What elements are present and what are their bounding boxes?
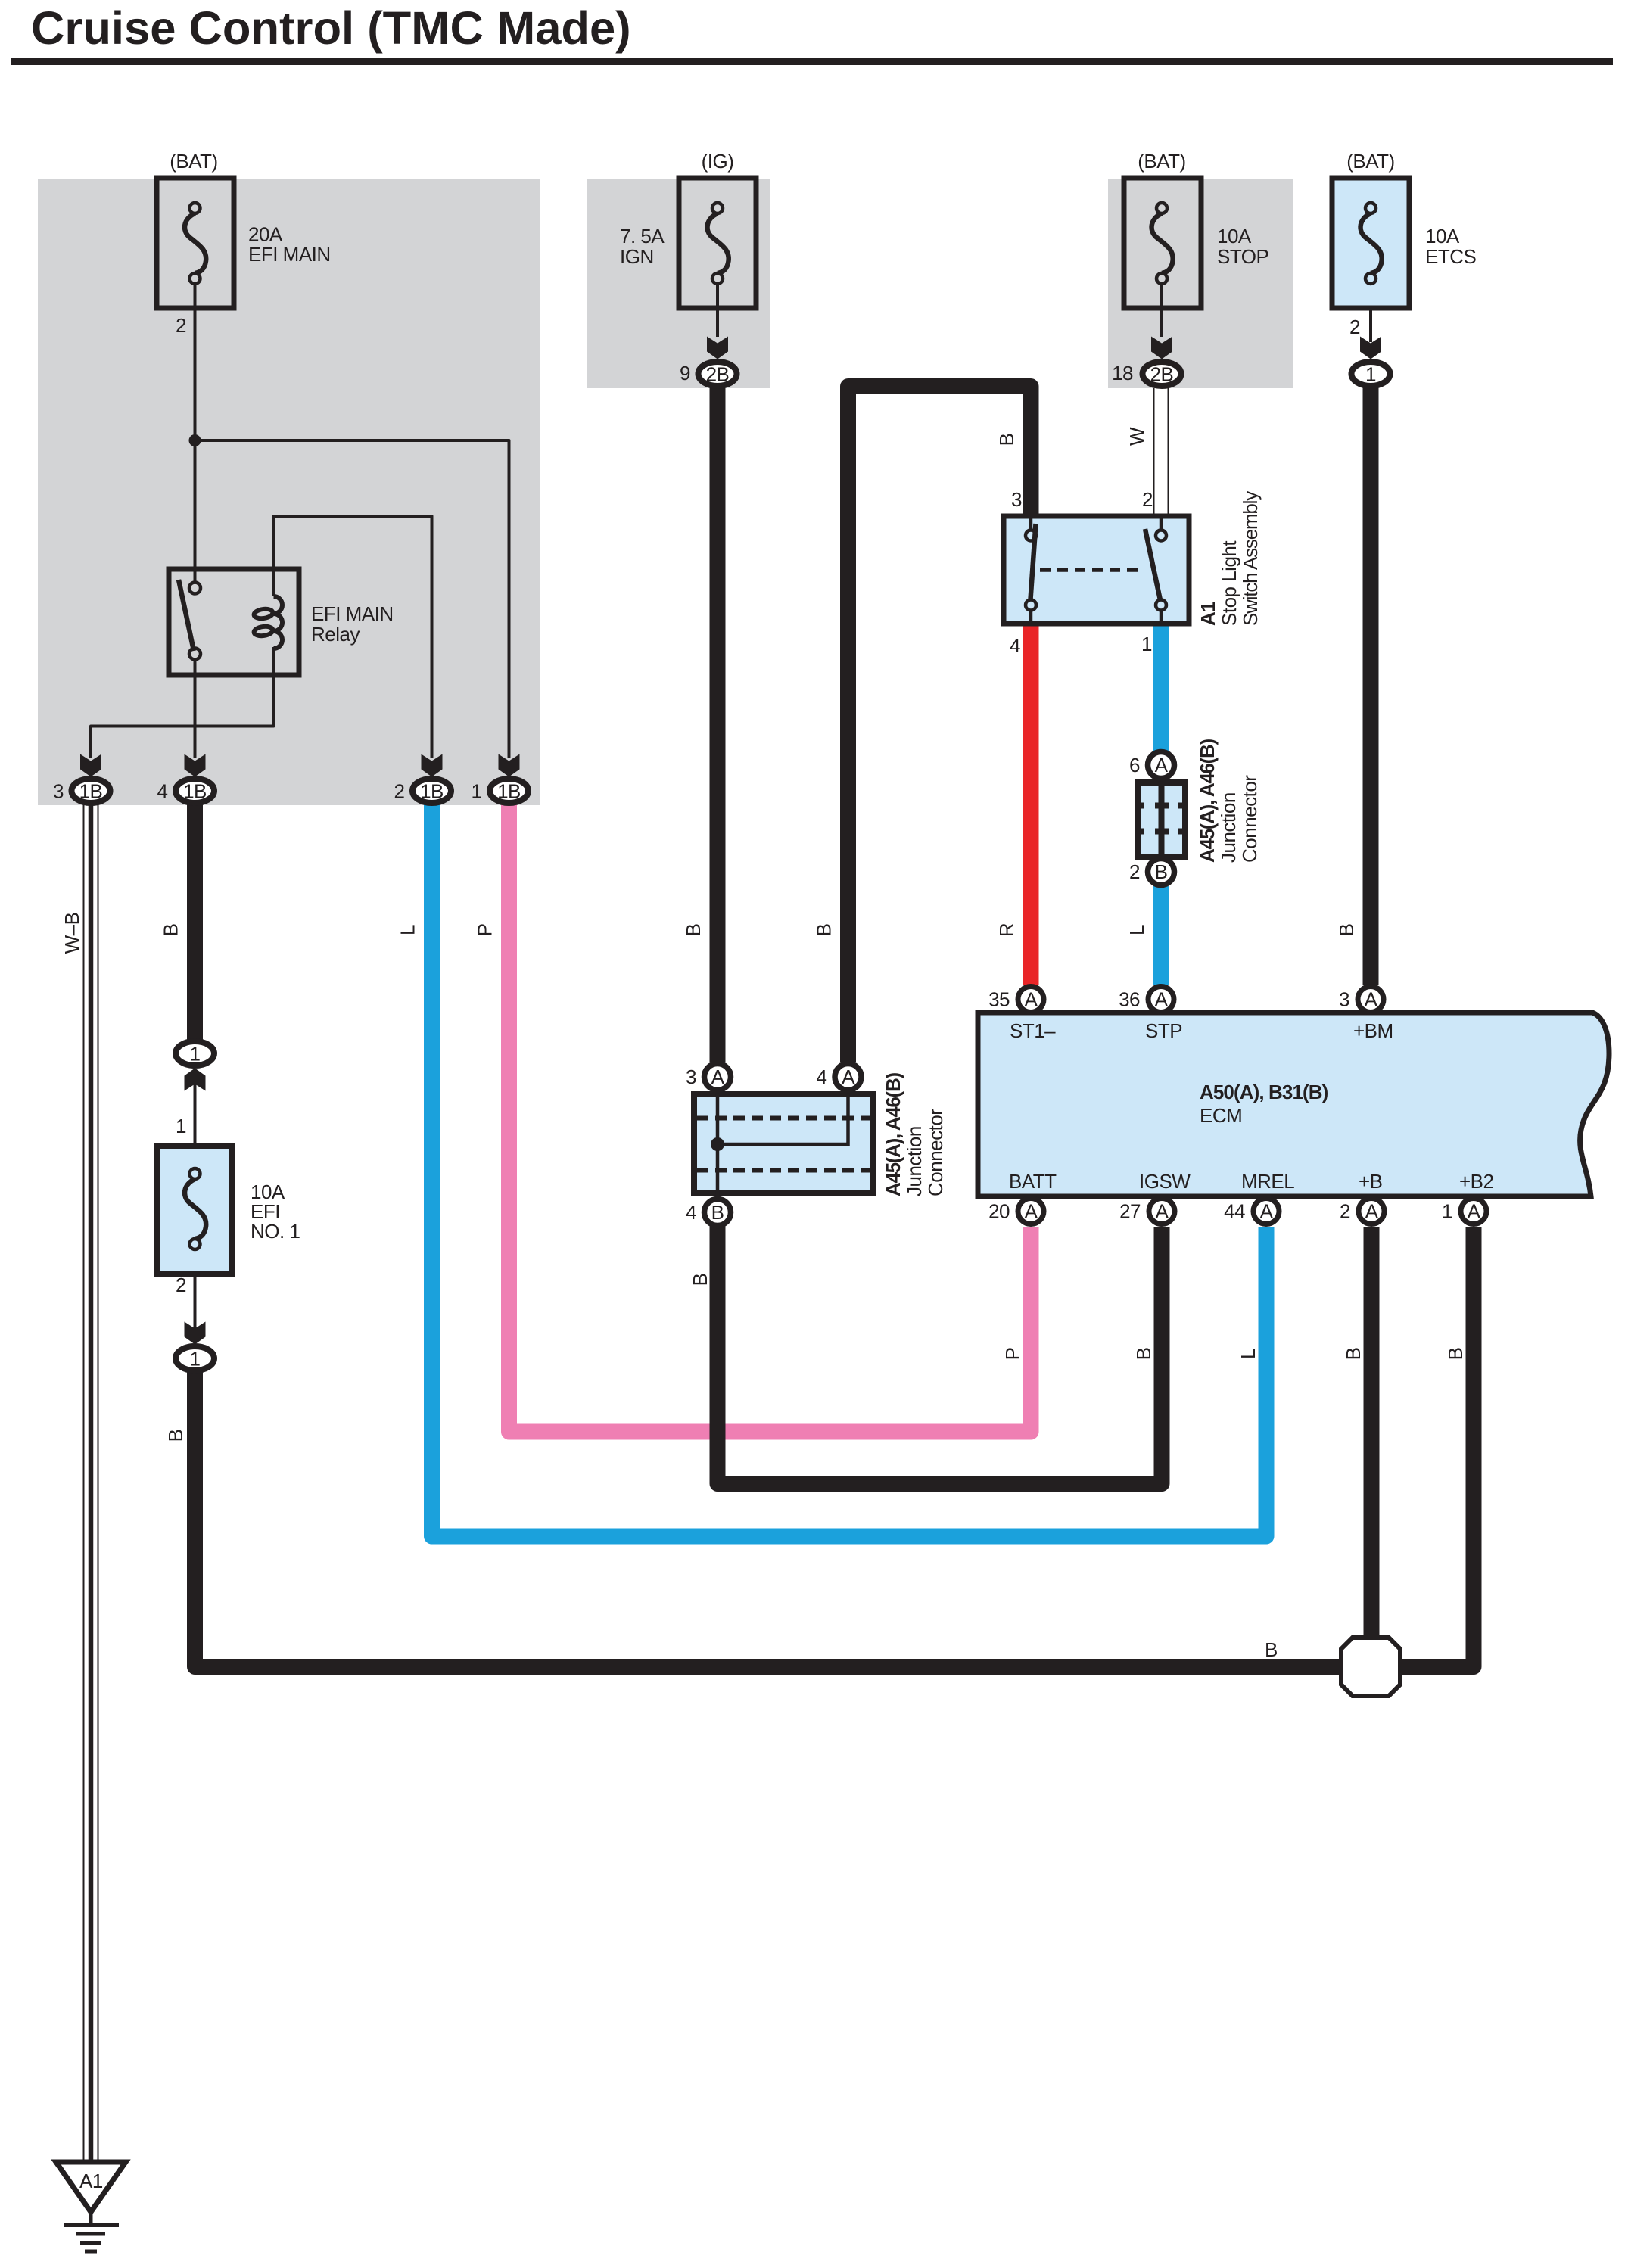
svg-text:L: L <box>1237 1349 1259 1359</box>
stop light switch mechanical link dashed <box>1040 568 1143 572</box>
svg-text:A: A <box>1155 754 1169 776</box>
svg-text:B: B <box>995 434 1018 446</box>
fuse F4 10A ETCS box <box>1332 178 1409 308</box>
wire L blue MREL route from connector 1B-2 to ECM 44(A) <box>432 804 1267 1536</box>
EFI NO.1 fuse element <box>185 1168 206 1249</box>
svg-text:NO. 1: NO. 1 <box>251 1220 300 1243</box>
ECM block A50(A) B31(B) <box>978 1013 1609 1196</box>
gray background panel IGN <box>587 179 770 388</box>
ECM terminal 3(A) <box>1358 987 1384 1013</box>
svg-text:EFI MAIN: EFI MAIN <box>311 602 394 625</box>
svg-text:MREL: MREL <box>1241 1170 1294 1193</box>
terminal circle 3(A) of middle junction connector <box>705 1064 731 1090</box>
svg-text:STP: STP <box>1145 1019 1182 1042</box>
svg-text:3: 3 <box>686 1066 696 1088</box>
svg-text:2: 2 <box>394 780 405 803</box>
svg-text:1B: 1B <box>497 780 521 803</box>
svg-text:W–B: W–B <box>61 913 83 954</box>
svg-text:A: A <box>711 1066 725 1088</box>
junction connector A45(A) A46(B) middle block <box>694 1094 873 1193</box>
wire B thick IGSW route from junction connector 4(B) to ECM 27(A) <box>718 1226 1162 1484</box>
wire B thick from ECM 2(A) +B down to octagon junction <box>1364 1227 1380 1639</box>
svg-text:IGSW: IGSW <box>1139 1170 1191 1193</box>
connector oval 1B-3 <box>72 779 111 803</box>
connector oval 1B-1 <box>490 779 528 803</box>
svg-text:1: 1 <box>190 1043 201 1066</box>
svg-text:Junction: Junction <box>1217 792 1240 863</box>
svg-text:7. 5A: 7. 5A <box>620 225 665 247</box>
stop light switch right pole <box>1145 516 1166 624</box>
svg-text:Relay: Relay <box>311 623 360 646</box>
svg-text:IGN: IGN <box>620 245 654 268</box>
svg-text:A45(A), A46(B): A45(A), A46(B) <box>1196 739 1219 863</box>
fuse F3 element <box>1152 203 1173 284</box>
ground symbol A1 triangle <box>56 2162 126 2212</box>
svg-text:3: 3 <box>1011 488 1022 511</box>
svg-text:A: A <box>1025 1200 1038 1223</box>
svg-text:A45(A), A46(B): A45(A), A46(B) <box>882 1072 904 1196</box>
fuse F4 element <box>1361 203 1382 284</box>
svg-text:B: B <box>689 1274 711 1286</box>
svg-text:A: A <box>1365 1200 1379 1223</box>
wire thin from connector 1 pin 1 to EFI NO.1 fuse <box>194 1069 197 1170</box>
svg-text:B: B <box>682 924 705 937</box>
wire B thick loop from junction connector 4(A) up and over to stop light switch pin 3 <box>848 387 1032 1063</box>
relay switch contacts and blade <box>179 580 201 660</box>
node junction dot on EFI MAIN feed <box>189 434 201 446</box>
wire thin from STOP fuse pin to connector 2B-18 <box>1160 283 1163 337</box>
fuse F1 element <box>185 203 206 284</box>
wire B thick from connector 1B-4 down to connector 1 above EFI NO.1 fuse <box>187 804 203 1040</box>
svg-text:A1: A1 <box>1197 602 1219 626</box>
svg-text:B: B <box>813 924 836 937</box>
svg-text:ETCS: ETCS <box>1425 245 1477 268</box>
svg-text:B: B <box>711 1201 724 1224</box>
svg-text:36: 36 <box>1119 988 1140 1011</box>
svg-text:W: W <box>1125 427 1148 446</box>
svg-text:B: B <box>1342 1348 1365 1361</box>
wire B thick from connector 1 below EFI NO.1 fuse to ground octagon junction <box>195 1372 1343 1667</box>
arrow into connector 1B-3 <box>80 754 101 777</box>
svg-text:1B: 1B <box>79 780 103 803</box>
junction connector A45(A) A46(B) small block <box>1138 782 1185 857</box>
svg-text:1: 1 <box>472 780 482 803</box>
svg-text:20: 20 <box>988 1200 1010 1223</box>
svg-text:R: R <box>995 923 1018 937</box>
svg-text:2: 2 <box>176 1274 186 1296</box>
svg-text:ST1–: ST1– <box>1010 1019 1056 1042</box>
stop light switch left pole <box>1026 516 1036 624</box>
svg-text:L: L <box>397 925 419 935</box>
svg-text:BATT: BATT <box>1009 1170 1057 1193</box>
svg-text:27: 27 <box>1119 1200 1141 1223</box>
gray background panel left <box>38 179 540 805</box>
svg-text:Connector: Connector <box>1238 775 1261 863</box>
junction connector small dash gaps <box>1144 806 1178 832</box>
ECM terminal 44(A) <box>1253 1199 1279 1224</box>
svg-text:4: 4 <box>1010 634 1020 657</box>
svg-text:35: 35 <box>988 988 1010 1011</box>
stop light switch assembly A1 box <box>1004 516 1189 624</box>
svg-text:1: 1 <box>190 1348 201 1370</box>
svg-text:Connector: Connector <box>924 1109 947 1196</box>
svg-text:B: B <box>164 1430 187 1442</box>
fuse F2 element <box>708 203 729 284</box>
relay EFI MAIN box <box>169 569 299 675</box>
svg-text:A50(A), B31(B): A50(A), B31(B) <box>1200 1081 1328 1103</box>
wire B thick from ECM 1(A) +B2 down and left to octagon junction <box>1399 1227 1474 1667</box>
svg-text:2B: 2B <box>1150 363 1174 386</box>
ECM terminal 2(A) <box>1359 1199 1384 1224</box>
svg-text:B: B <box>1444 1348 1467 1361</box>
junction connector middle internal wiring <box>718 1091 848 1196</box>
svg-text:1: 1 <box>1442 1200 1452 1223</box>
connector oval 1B-2 <box>412 779 451 803</box>
svg-text:10A: 10A <box>1425 225 1460 247</box>
wire thin from relay coil top over to connector 1B-2 <box>274 516 432 758</box>
wire L blue from stop light switch pin 1 to junction connector A <box>1153 624 1169 751</box>
wire P pink BATT route from connector 1B-1 to ECM 20(A) <box>509 804 1032 1432</box>
svg-text:(BAT): (BAT) <box>1138 150 1185 173</box>
wire thin from IGN fuse pin to connector 2B-9 <box>716 283 719 337</box>
svg-text:B: B <box>1155 860 1168 883</box>
fuse F3 10A STOP box <box>1124 178 1201 308</box>
svg-text:A: A <box>1156 1200 1169 1223</box>
svg-text:2: 2 <box>1349 316 1360 338</box>
connector oval 1 above EFI NO.1 fuse <box>176 1041 214 1066</box>
svg-text:1: 1 <box>176 1115 186 1137</box>
svg-text:P: P <box>474 924 496 937</box>
svg-text:1: 1 <box>1141 633 1152 655</box>
arrow into connector 1B-1 <box>499 754 520 777</box>
relay coil <box>254 596 282 649</box>
arrow into connector 1B-2 <box>422 754 443 777</box>
arrow into connector 1B-4 <box>185 754 206 777</box>
svg-text:EFI MAIN: EFI MAIN <box>248 243 331 266</box>
svg-text:2: 2 <box>1142 488 1153 511</box>
ground symbol stem <box>89 2212 93 2225</box>
octagon ground junction <box>1341 1638 1400 1696</box>
ECM terminal 36(A) <box>1148 987 1174 1013</box>
svg-text:L: L <box>1125 925 1148 935</box>
connector oval 1 below EFI NO.1 fuse <box>176 1346 214 1370</box>
wire B thick from ETCS connector 1 down to ECM 3(A) +BM <box>1363 387 1379 985</box>
terminal circle 4(B) of middle junction connector <box>705 1199 731 1226</box>
arrow into connector 1 (ETCS) <box>1360 337 1381 359</box>
svg-text:A: A <box>1365 988 1378 1011</box>
svg-text:4: 4 <box>686 1201 696 1224</box>
wire thin branch from junction dot to connector 1B-1 <box>195 440 509 758</box>
svg-text:4: 4 <box>157 780 168 803</box>
svg-text:B: B <box>1335 924 1358 937</box>
title underline <box>11 58 1613 65</box>
connector oval 2B-9 <box>699 362 737 386</box>
junction connector small internal grid <box>1138 782 1185 857</box>
terminal circle A of small junction connector <box>1148 752 1175 779</box>
svg-text:4: 4 <box>817 1066 827 1088</box>
EFI NO.1 fuse box <box>157 1146 232 1274</box>
fuse F1 20A EFI MAIN box <box>157 178 234 308</box>
svg-text:Switch Assembly: Switch Assembly <box>1239 491 1262 626</box>
wire thin from EFI NO.1 fuse pin 2 to lower connector 1 <box>194 1252 197 1344</box>
svg-text:STOP: STOP <box>1217 245 1268 268</box>
wire thin from EFI MAIN fuse 20A pin 2 down to relay switch contact <box>194 283 197 583</box>
wire L blue from junction connector B to ECM 36(A) STP <box>1153 886 1169 985</box>
svg-text:Stop Light: Stop Light <box>1218 540 1240 626</box>
svg-text:1B: 1B <box>183 780 207 803</box>
svg-text:Junction: Junction <box>903 1126 926 1196</box>
arrow up into connector 1 above EFI NO.1 fuse <box>185 1069 206 1091</box>
gray background panel STOP <box>1108 179 1293 388</box>
svg-text:3: 3 <box>53 780 64 803</box>
arrow down into connector 1 below EFI NO.1 fuse <box>185 1322 206 1345</box>
svg-text:+B: +B <box>1359 1170 1383 1193</box>
svg-text:(BAT): (BAT) <box>1346 150 1394 173</box>
svg-text:1: 1 <box>1365 363 1376 386</box>
junction connector middle node dot <box>711 1137 724 1151</box>
svg-text:2: 2 <box>1340 1200 1350 1223</box>
svg-text:A: A <box>842 1066 855 1088</box>
svg-text:18: 18 <box>1112 362 1133 384</box>
svg-text:+BM: +BM <box>1353 1019 1393 1042</box>
svg-text:B: B <box>1265 1638 1278 1661</box>
connector oval 1B-4 <box>176 779 214 803</box>
svg-text:B: B <box>160 924 182 937</box>
svg-text:3: 3 <box>1339 988 1349 1011</box>
svg-text:1B: 1B <box>420 780 444 803</box>
wire W-B white-black stripe from connector 1B-3 down to ground A1 <box>84 804 98 2162</box>
fuse F2 7.5A IGN box <box>679 178 756 308</box>
arrow into connector 2B-18 <box>1151 337 1172 359</box>
junction connector middle dashed bus rows <box>697 1118 870 1171</box>
wire thin from relay switch bottom contact to connector 1B-4 <box>194 658 197 758</box>
svg-text:P: P <box>1001 1348 1024 1361</box>
svg-text:B: B <box>1132 1348 1155 1361</box>
ECM terminal 27(A) <box>1149 1199 1175 1224</box>
ECM terminal 35(A) <box>1018 987 1044 1013</box>
svg-text:A: A <box>1260 1200 1274 1223</box>
terminal circle B of small junction connector <box>1148 859 1175 885</box>
arrow into connector 2B-9 <box>707 337 728 359</box>
wire B thick from connector 2B-9 down to junction connector 3(A) <box>710 387 726 1062</box>
wire thin from relay coil bottom to connector 1B-3 <box>91 647 274 758</box>
svg-text:+B2: +B2 <box>1459 1170 1494 1193</box>
svg-text:10A: 10A <box>1217 225 1252 247</box>
svg-text:6: 6 <box>1129 754 1140 776</box>
ECM terminal 1(A) <box>1461 1199 1486 1224</box>
ECM terminal 20(A) <box>1018 1199 1044 1224</box>
svg-text:ECM: ECM <box>1200 1104 1242 1127</box>
terminal circle 4(A) of middle junction connector <box>835 1064 861 1090</box>
svg-text:2B: 2B <box>706 363 730 386</box>
svg-text:A: A <box>1468 1200 1481 1223</box>
svg-text:(BAT): (BAT) <box>170 150 217 173</box>
svg-text:A: A <box>1025 988 1038 1011</box>
wire thin from ETCS fuse pin 2 to connector 1 <box>1369 283 1372 342</box>
svg-text:2: 2 <box>1129 860 1140 883</box>
svg-text:9: 9 <box>680 362 690 384</box>
svg-text:A: A <box>1155 988 1169 1011</box>
svg-text:44: 44 <box>1224 1200 1245 1223</box>
svg-text:2: 2 <box>176 314 186 337</box>
svg-text:(IG): (IG) <box>702 150 734 173</box>
svg-text:20A: 20A <box>248 223 283 246</box>
svg-text:A1: A1 <box>79 2170 103 2192</box>
wire W white double line from connector 2B-18 to stop light switch pin 2 <box>1154 388 1169 516</box>
connector oval 2B-18 <box>1143 362 1181 386</box>
wire R red from stop light switch pin 4 to ECM 35(A) ST1- <box>1023 624 1039 985</box>
svg-text:Cruise Control (TMC Made): Cruise Control (TMC Made) <box>31 2 631 54</box>
connector oval 1 (ETCS) <box>1352 362 1390 386</box>
ground symbol bars <box>64 2226 119 2252</box>
